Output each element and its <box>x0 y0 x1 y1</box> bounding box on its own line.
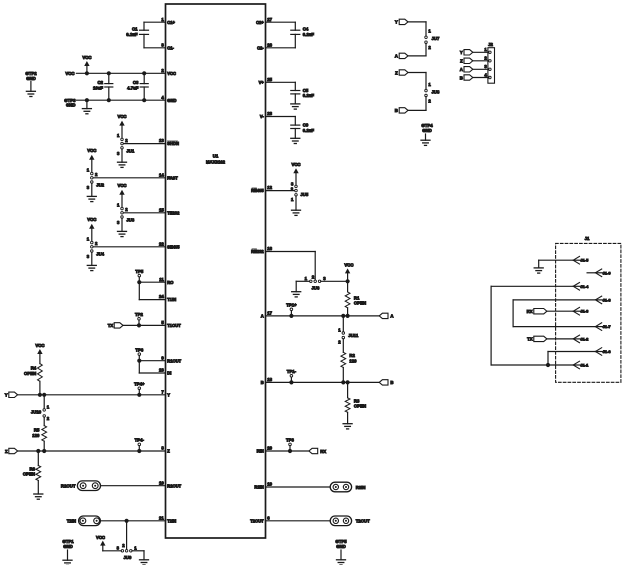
svg-text:TP2: TP2 <box>135 312 143 317</box>
svg-text:T1OUT: T1OUT <box>167 323 181 328</box>
pin J1-1 <box>548 361 589 369</box>
svg-text:OPEN: OPEN <box>354 404 366 409</box>
svg-text:J1-6: J1-6 <box>603 349 612 354</box>
svg-text:Z: Z <box>460 59 463 64</box>
svg-text:VCC: VCC <box>291 162 300 167</box>
svg-text:C1+: C1+ <box>167 20 175 25</box>
svg-text:VCC: VCC <box>87 217 96 222</box>
capacitor C9 0.1uF <box>291 117 315 139</box>
node B flag at JU8 <box>395 108 408 114</box>
svg-text:C2+: C2+ <box>256 20 264 25</box>
node A flag to J2 pin 3 <box>460 64 489 72</box>
wire + pin 27 C2+ (right) <box>256 17 295 25</box>
jumper JU9 on T2IN line with VCC and ground <box>103 519 144 560</box>
svg-text:0.1uF: 0.1uF <box>303 128 315 133</box>
svg-text:J1-2: J1-2 <box>580 336 589 341</box>
svg-text:TP1+: TP1+ <box>286 303 297 308</box>
svg-text:TX: TX <box>527 337 533 342</box>
svg-text:120: 120 <box>32 433 40 438</box>
svg-text:VCC: VCC <box>167 71 176 76</box>
svg-text:V+: V+ <box>259 80 265 85</box>
wire + pin 2 VCC (left) <box>76 68 176 76</box>
svg-text:JU9: JU9 <box>124 555 132 560</box>
svg-text:Y: Y <box>167 392 170 397</box>
resistor R4 OPEN <box>24 364 42 397</box>
svg-text:27: 27 <box>267 17 272 22</box>
svg-text:RE232: RE232 <box>251 249 264 254</box>
svg-text:T2IN: T2IN <box>67 519 76 524</box>
svg-text:OPEN: OPEN <box>354 301 366 306</box>
wire + pin 15 TE232 (left) <box>123 207 180 215</box>
svg-text:1: 1 <box>87 236 90 241</box>
test point TP2 on TX line <box>135 312 143 327</box>
svg-text:Y: Y <box>5 393 8 398</box>
node RX flag from pin 20 RIN <box>309 448 326 454</box>
svg-text:B: B <box>460 75 463 80</box>
svg-text:SE485: SE485 <box>167 244 180 249</box>
svg-text:2: 2 <box>161 68 164 73</box>
svg-text:R1OUT: R1OUT <box>167 358 181 363</box>
svg-text:1: 1 <box>87 167 90 172</box>
capacitor C2 10uF <box>93 71 113 102</box>
svg-text:JU4: JU4 <box>96 252 104 257</box>
svg-text:SHDN: SHDN <box>167 141 179 146</box>
node Z flag at JU8 <box>395 70 426 76</box>
svg-text:RX: RX <box>320 449 326 454</box>
wire + pin 12 RE485 (right) <box>251 185 295 193</box>
svg-text:R2OUT: R2OUT <box>167 483 181 488</box>
wire + pin 10 R2OUT (left) <box>101 480 182 488</box>
svg-text:J1-1: J1-1 <box>580 363 589 368</box>
svg-text:R2IN: R2IN <box>356 485 366 490</box>
svg-text:R3: R3 <box>354 398 360 403</box>
node Z flag to J2 pin 2 <box>460 56 489 64</box>
svg-text:GND: GND <box>63 544 73 549</box>
svg-text:0.1uF: 0.1uF <box>303 93 315 98</box>
svg-text:J1-8: J1-8 <box>603 297 612 302</box>
wire + pin 19 R2IN (right) <box>254 482 330 490</box>
test point TP6 joining pins 9 R1OUT and 23 DI <box>135 347 143 373</box>
connector T2OUT pads <box>330 516 370 526</box>
svg-text:23: 23 <box>267 111 272 116</box>
wire + pin 6 T2OUT (right) <box>250 515 330 523</box>
svg-text:JU8: JU8 <box>432 90 440 95</box>
svg-text:DI: DI <box>167 371 171 376</box>
node Y input flag <box>5 392 18 398</box>
svg-text:JU1: JU1 <box>126 148 134 153</box>
svg-text:18: 18 <box>267 377 272 382</box>
jumper JU5 (pin 12 RE485 select) with VCC and ground <box>291 162 309 215</box>
test point TP4- on Z line <box>135 438 145 453</box>
svg-text:R5: R5 <box>34 428 40 433</box>
pin J1-9 stub <box>587 269 611 277</box>
node A flag at JU7 <box>395 53 408 59</box>
capacitor C4 0.1uF <box>291 22 315 48</box>
jumper JU11 between A and B lines <box>338 314 359 353</box>
svg-text:RX: RX <box>527 309 533 314</box>
svg-text:MAX3162: MAX3162 <box>206 160 226 165</box>
pin J1-8 <box>595 296 611 304</box>
svg-text:2: 2 <box>122 543 125 548</box>
svg-text:TP4-: TP4- <box>135 438 145 443</box>
resistor R3 OPEN below B line <box>345 380 366 423</box>
wire + pin 22 SE485 (left) <box>93 241 180 249</box>
svg-text:Z: Z <box>395 70 398 75</box>
svg-text:2: 2 <box>125 138 128 143</box>
wire + pin 1 C1+ (left) <box>144 17 176 25</box>
pin J1-3 with RX flag <box>547 307 589 315</box>
svg-text:R2OUT: R2OUT <box>61 484 76 489</box>
jumper JU4 (pin 22 SE485 select) with VCC and ground <box>87 217 105 271</box>
ground below C5 <box>291 104 300 109</box>
svg-text:4.7uF: 4.7uF <box>127 85 139 90</box>
svg-text:1: 1 <box>305 276 308 281</box>
connector T2IN pads <box>67 516 101 526</box>
svg-text:JU2: JU2 <box>96 183 104 188</box>
ground GTP5 <box>335 539 347 565</box>
svg-text:R6: R6 <box>30 466 36 471</box>
svg-text:3: 3 <box>484 64 487 69</box>
svg-text:VCC: VCC <box>82 55 91 60</box>
svg-text:VCC: VCC <box>87 148 96 153</box>
svg-text:25: 25 <box>267 77 272 82</box>
jumper JU6 (RE232 select, horizontal) <box>296 274 347 290</box>
svg-text:3: 3 <box>117 151 120 156</box>
test point TP1+ on A line <box>286 303 297 318</box>
svg-text:1: 1 <box>117 133 120 138</box>
svg-text:17: 17 <box>267 311 272 316</box>
svg-text:2: 2 <box>95 241 98 246</box>
svg-text:T2IN: T2IN <box>167 518 176 523</box>
svg-text:J1-5: J1-5 <box>580 258 589 263</box>
svg-text:2: 2 <box>338 340 341 345</box>
svg-text:JU7: JU7 <box>432 36 440 41</box>
svg-text:T2OUT: T2OUT <box>250 518 264 523</box>
svg-text:22: 22 <box>159 241 164 246</box>
resistor R2 120 <box>341 352 357 384</box>
svg-text:Y: Y <box>460 50 463 55</box>
wire + pin 9 R1OUT (left) <box>139 355 181 363</box>
ground GTP2 <box>25 71 37 97</box>
wire J1-6 to junction <box>548 352 595 366</box>
svg-text:TE232: TE232 <box>167 210 180 215</box>
resistor R1 OPEN <box>345 281 366 318</box>
svg-text:120: 120 <box>349 358 357 363</box>
wire + pin 16 RE232 (right) <box>251 246 315 254</box>
svg-text:15: 15 <box>159 207 164 212</box>
svg-text:J1-4: J1-4 <box>580 284 589 289</box>
svg-text:16: 16 <box>267 246 272 251</box>
wire + pin 25 V+ (right) <box>259 77 296 85</box>
wire + pin 24 T1IN (left) <box>139 294 176 302</box>
pin J1-4 <box>573 283 589 291</box>
svg-text:TP1-: TP1- <box>287 369 297 374</box>
pin J1-2 with TX flag <box>547 335 589 343</box>
jumper JU8 between Z and B <box>408 73 440 111</box>
power VCC arrow at JU9 pin 3 <box>96 535 106 551</box>
svg-text:RO: RO <box>167 280 174 285</box>
svg-text:10uF: 10uF <box>93 85 103 90</box>
svg-text:1: 1 <box>134 546 137 551</box>
svg-text:R1: R1 <box>354 295 360 300</box>
node TX flag into pin 5 T1OUT <box>108 323 123 329</box>
svg-text:GND: GND <box>422 128 432 133</box>
op-amp U1 MAX3162 transceiver IC body <box>166 4 266 538</box>
node Y flag to J2 pin 1 <box>460 47 489 55</box>
svg-text:14: 14 <box>159 172 164 177</box>
svg-text:R2: R2 <box>349 353 355 358</box>
svg-text:3: 3 <box>87 254 90 259</box>
svg-text:TP3: TP3 <box>286 438 294 443</box>
node B flag to J2 pin 4 <box>460 72 489 80</box>
ground at JU9 pin 1 <box>140 551 149 565</box>
svg-text:GND: GND <box>26 76 36 81</box>
node A output flag <box>379 313 393 319</box>
svg-text:1: 1 <box>161 17 164 22</box>
svg-text:T1IN: T1IN <box>167 297 176 302</box>
connector J1 DB9 dashed outline <box>556 236 621 382</box>
svg-text:0.1uF: 0.1uF <box>126 32 138 37</box>
pin J1-6 <box>595 348 611 356</box>
svg-text:J2: J2 <box>488 42 493 47</box>
svg-text:2: 2 <box>484 56 487 61</box>
connector J2 header <box>488 42 495 83</box>
svg-text:V-: V- <box>260 114 265 119</box>
svg-text:8: 8 <box>161 446 164 451</box>
capacitor C1 0.1uF <box>126 22 148 48</box>
wire + pin 18 B (right) <box>261 377 379 385</box>
pin J1-5 with ground <box>539 256 589 268</box>
svg-text:C4: C4 <box>303 27 309 32</box>
ground below C9 <box>291 138 300 143</box>
test point TP1- on B line <box>287 369 297 384</box>
wire + pin 14 FAST (left) <box>93 172 178 180</box>
svg-text:1: 1 <box>338 327 341 332</box>
wire J1-8 loop to J1-7 <box>513 300 595 327</box>
svg-text:VCC: VCC <box>344 262 353 267</box>
svg-text:3: 3 <box>117 546 120 551</box>
svg-text:A: A <box>395 54 398 59</box>
test point TP4+ on Y line <box>134 382 145 397</box>
svg-text:5: 5 <box>161 320 164 325</box>
svg-text:B: B <box>390 380 393 385</box>
svg-text:Y: Y <box>395 20 398 25</box>
svg-text:6: 6 <box>267 515 270 520</box>
svg-text:10: 10 <box>159 480 164 485</box>
svg-text:4: 4 <box>161 95 164 100</box>
svg-text:3: 3 <box>117 220 120 225</box>
capacitor C3 4.7uF <box>127 71 148 102</box>
svg-text:OPEN: OPEN <box>24 371 36 376</box>
ground on GND rail <box>82 98 91 114</box>
svg-text:J1-7: J1-7 <box>603 324 612 329</box>
node GND rail label GTP3 <box>64 98 76 108</box>
power VCC arrow above R4 <box>35 343 44 364</box>
wire + pin 13 SHDN (left) <box>123 138 179 146</box>
jumper JU1 (pin 13 SHDN select) with VCC and ground <box>117 114 135 168</box>
wire + pin 11 RO (left) <box>139 277 174 285</box>
svg-text:C1: C1 <box>132 27 138 32</box>
svg-text:2: 2 <box>47 416 50 421</box>
svg-text:TP6: TP6 <box>135 347 143 352</box>
test point TP5 joining pins 11 RO and 24 T1IN <box>135 269 143 300</box>
jumper JU2 (pin 14 FAST select) with VCC and ground <box>87 148 105 202</box>
svg-text:JU10: JU10 <box>31 410 42 415</box>
svg-text:JU5: JU5 <box>300 192 308 197</box>
svg-text:TP4+: TP4+ <box>134 382 145 387</box>
svg-text:3: 3 <box>323 276 326 281</box>
svg-text:24: 24 <box>159 294 164 299</box>
wire + pin 23 V- (right) <box>260 111 295 119</box>
ground GTP4 <box>421 123 433 145</box>
svg-text:JU3: JU3 <box>126 218 134 223</box>
wire + pin 7 Y (left) <box>18 389 171 397</box>
svg-text:TP5: TP5 <box>135 269 143 274</box>
node Y flag at JU7 <box>395 19 426 25</box>
wire + pin 26 C2- (right) <box>257 42 295 50</box>
svg-text:2: 2 <box>125 207 128 212</box>
svg-text:1: 1 <box>428 82 431 87</box>
jumper JU10 between Y and Z lines <box>31 393 50 426</box>
pin J1-7 <box>595 323 611 331</box>
svg-text:J1: J1 <box>585 236 590 241</box>
svg-text:C2-: C2- <box>257 45 264 50</box>
svg-text:1: 1 <box>428 29 431 34</box>
power VCC rail label <box>65 71 74 76</box>
svg-text:JU6: JU6 <box>312 286 320 291</box>
svg-text:2: 2 <box>428 45 431 50</box>
svg-text:OPEN: OPEN <box>23 472 35 477</box>
test point TP3 on RIN line <box>286 438 294 453</box>
svg-text:RE485: RE485 <box>251 188 264 193</box>
svg-text:2: 2 <box>428 99 431 104</box>
svg-text:J1-9: J1-9 <box>603 270 612 275</box>
svg-text:13: 13 <box>159 138 164 143</box>
node junction J1-1/J1-4/J1-6 <box>546 363 550 367</box>
svg-text:2: 2 <box>312 274 315 279</box>
power VCC arrow above R1 <box>344 262 353 283</box>
svg-text:0.1uF: 0.1uF <box>303 32 315 37</box>
svg-text:B: B <box>261 380 264 385</box>
svg-text:Z: Z <box>5 449 8 454</box>
svg-text:J1-3: J1-3 <box>580 309 589 314</box>
svg-text:3: 3 <box>87 185 90 190</box>
svg-text:R2IN: R2IN <box>254 485 263 490</box>
svg-text:GND: GND <box>66 103 76 108</box>
svg-text:A: A <box>261 314 264 319</box>
svg-text:A: A <box>390 314 393 319</box>
svg-text:C1-: C1- <box>167 45 174 50</box>
wire from pin 16 RE232 down to JU6 <box>314 252 316 281</box>
ground below R6 <box>34 494 43 499</box>
svg-text:9: 9 <box>161 355 164 360</box>
node B output flag <box>379 380 393 386</box>
svg-text:2: 2 <box>95 172 98 177</box>
svg-text:VCC: VCC <box>96 535 105 540</box>
ground GTP1 <box>62 539 74 565</box>
svg-text:B: B <box>395 108 398 113</box>
svg-text:1: 1 <box>291 197 294 202</box>
node Z input flag <box>5 448 18 454</box>
wire J1-4 loop to J1-1/J1-6 <box>491 286 573 365</box>
node TX flag at J1-2 <box>527 336 547 341</box>
ground at JU6 pin 1 <box>292 281 301 297</box>
wire + pin 5 T1OUT (left) <box>123 320 181 328</box>
svg-text:T2OUT: T2OUT <box>356 519 370 524</box>
svg-text:1: 1 <box>47 404 50 409</box>
wire + pin 20 RIN (right) <box>257 446 309 454</box>
svg-text:VCC: VCC <box>117 114 126 119</box>
wire + pin 21 T2IN (left) <box>100 515 176 523</box>
svg-text:23: 23 <box>159 368 164 373</box>
svg-text:20: 20 <box>267 446 272 451</box>
svg-text:4: 4 <box>484 72 487 77</box>
svg-text:GND: GND <box>167 98 176 103</box>
svg-text:R4: R4 <box>31 366 37 371</box>
svg-text:U1: U1 <box>213 154 219 159</box>
wire + pin 3 C1- (left) <box>144 42 175 50</box>
svg-text:7: 7 <box>161 389 164 394</box>
ground at J1-5 <box>534 268 543 273</box>
svg-text:1: 1 <box>484 47 487 52</box>
ground below R3 <box>343 424 352 429</box>
svg-text:1: 1 <box>117 202 120 207</box>
resistor R6 OPEN below Z line <box>23 449 41 494</box>
svg-text:VCC: VCC <box>35 343 44 348</box>
svg-text:21: 21 <box>159 515 164 520</box>
svg-text:TX: TX <box>108 323 114 328</box>
svg-text:3: 3 <box>161 42 164 47</box>
svg-text:VCC: VCC <box>65 71 74 76</box>
svg-text:FAST: FAST <box>167 175 178 180</box>
svg-text:12: 12 <box>267 185 272 190</box>
svg-text:VCC: VCC <box>117 183 126 188</box>
jumper JU3 (pin 15 TE232 select) with VCC and ground <box>117 183 135 237</box>
wire + pin 4 GND (left) <box>76 95 176 103</box>
svg-text:A: A <box>460 67 463 72</box>
svg-text:RIN: RIN <box>257 449 264 454</box>
svg-text:26: 26 <box>267 42 272 47</box>
svg-text:GND: GND <box>336 544 346 549</box>
power VCC arrow on rail <box>82 55 91 75</box>
svg-text:JU11: JU11 <box>348 333 359 338</box>
connector R2IN pads <box>330 482 365 492</box>
node RX flag at J1-3 <box>527 309 547 314</box>
wire + pin 8 Z (left) <box>18 446 171 454</box>
connector R2OUT pads <box>61 481 101 491</box>
resistor R5 120 <box>32 426 46 454</box>
jumper JU7 between Y and A <box>408 22 440 56</box>
capacitor C5 0.1uF <box>291 82 315 104</box>
wire + pin 23 DI (left) <box>139 368 171 376</box>
wire + pin 17 A (right) <box>261 311 379 319</box>
svg-text:11: 11 <box>159 277 164 282</box>
svg-text:19: 19 <box>267 482 272 487</box>
